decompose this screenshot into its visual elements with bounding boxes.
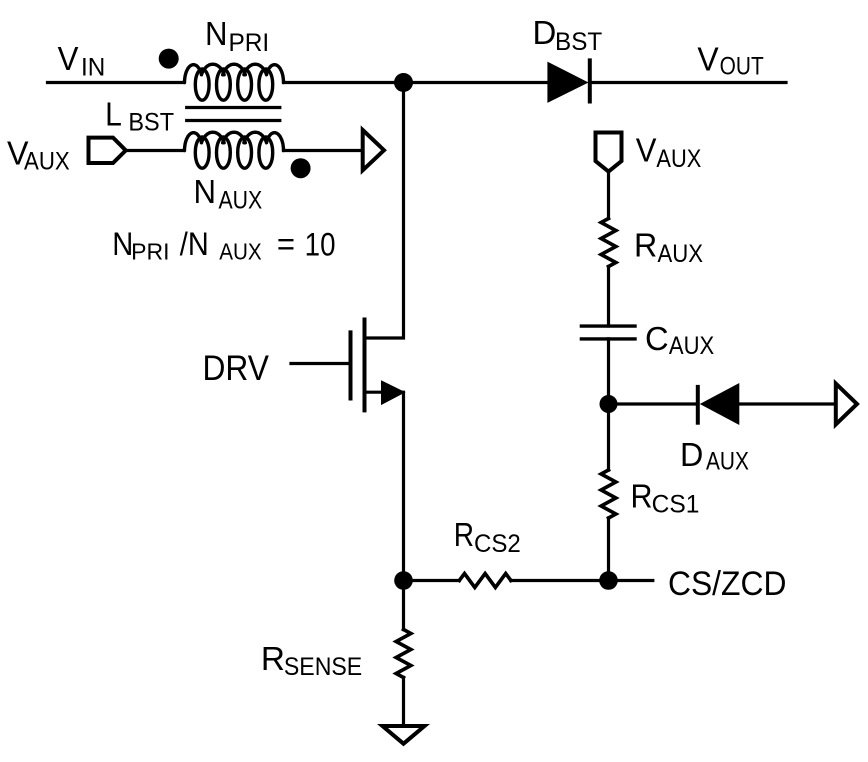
svg-text:AUX: AUX	[219, 187, 263, 215]
ground	[383, 726, 425, 744]
svg-text:V: V	[58, 40, 79, 77]
svg-text:R: R	[631, 478, 653, 515]
wire VIN input	[48, 81, 185, 84]
wire RCS2 to node	[511, 579, 609, 582]
phase dot NAUX	[291, 158, 311, 178]
svg-text:PRI: PRI	[131, 239, 169, 265]
resistor RAUX	[601, 219, 616, 267]
wire NAUX to arrow	[284, 149, 363, 152]
capacitor CAUX	[581, 324, 635, 327]
node DAUX junction	[600, 395, 618, 413]
output arrow (DAUX)	[836, 384, 857, 425]
svg-text:R: R	[634, 227, 657, 264]
resistor RCS2	[459, 574, 511, 588]
wire DAUX to output arrow	[739, 402, 833, 405]
terminal VAUX (top right)	[596, 133, 622, 172]
svg-text:SENSE: SENSE	[284, 653, 362, 681]
wire terminal to NAUX	[127, 149, 184, 152]
wire drain rail	[365, 83, 404, 339]
svg-text:V: V	[697, 41, 718, 78]
svg-text:BST: BST	[128, 109, 174, 137]
svg-text:AUX: AUX	[658, 240, 704, 268]
wire RAUX to CAUX	[607, 267, 610, 327]
wire node to DAUX	[609, 402, 698, 405]
wire RSENSE to ground	[402, 678, 405, 725]
diode DBST	[547, 62, 588, 103]
wire NPRI to DBST	[284, 81, 548, 84]
svg-text:CS1: CS1	[652, 491, 700, 519]
svg-text:R: R	[454, 516, 474, 553]
svg-text:R: R	[261, 640, 285, 677]
wire CAUX to node	[607, 339, 610, 404]
svg-text:N: N	[205, 15, 228, 52]
wire terminal to RAUX	[607, 172, 610, 219]
node junction top	[394, 73, 413, 92]
resistor RCS1	[601, 470, 616, 518]
mosfet Q1 gate bar	[349, 332, 353, 398]
svg-text:AUX: AUX	[24, 148, 70, 176]
svg-text:PRI: PRI	[228, 29, 269, 57]
svg-text:=: =	[277, 226, 295, 262]
output arrow (aux winding)	[363, 130, 384, 170]
wire RCS1 to node	[607, 518, 610, 581]
svg-text:AUX: AUX	[656, 145, 701, 173]
wire to CS/ZCD pin	[609, 579, 653, 582]
svg-text:OUT: OUT	[720, 53, 764, 81]
svg-text:AUX: AUX	[669, 332, 715, 360]
svg-text:DRV: DRV	[202, 349, 269, 388]
svg-text:IN: IN	[81, 53, 105, 81]
diode DAUX	[696, 387, 700, 423]
wire node to RCS1	[607, 404, 610, 470]
node CS/ZCD junction	[599, 571, 618, 590]
svg-text:C: C	[645, 320, 669, 357]
svg-text:CS2: CS2	[474, 530, 521, 558]
svg-text:BST: BST	[555, 28, 602, 56]
wire DBST to VOUT	[590, 81, 786, 84]
wire source rail down	[402, 392, 405, 580]
svg-text:CS/ZCD: CS/ZCD	[668, 565, 786, 603]
svg-text:N: N	[194, 173, 217, 210]
mosfet Q1 channel bar	[363, 320, 367, 411]
svg-text:D: D	[533, 14, 557, 51]
inductor NPRI (transformer primary)	[185, 64, 284, 100]
svg-text:L: L	[105, 96, 122, 133]
node source/RCS2/RSENSE junction	[394, 571, 413, 590]
wire node to RSENSE	[402, 581, 405, 630]
svg-text:AUX: AUX	[706, 448, 749, 476]
input terminal VAUX	[89, 138, 126, 163]
phase dot NPRI	[159, 49, 179, 69]
mosfet source lead with arrow	[365, 391, 385, 394]
svg-text:V: V	[636, 132, 657, 169]
transformer core	[187, 106, 280, 109]
svg-text:10: 10	[305, 227, 336, 263]
resistor RSENSE	[396, 630, 411, 678]
svg-text:/N: /N	[180, 226, 209, 262]
svg-text:D: D	[680, 436, 703, 473]
wire gate lead DRV	[291, 362, 348, 365]
wire node to RCS2	[404, 579, 460, 582]
inductor NAUX (aux winding)	[185, 132, 284, 168]
svg-text:AUX: AUX	[219, 239, 262, 265]
